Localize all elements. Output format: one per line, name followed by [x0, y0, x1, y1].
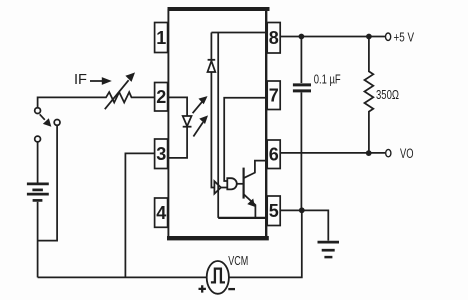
- svg-text:4: 4: [156, 203, 166, 223]
- svg-text:8: 8: [269, 28, 279, 48]
- svg-text:0.1 µF: 0.1 µF: [314, 72, 341, 87]
- svg-text:IF: IF: [74, 71, 87, 88]
- svg-text:2: 2: [156, 87, 166, 107]
- svg-text:VCM: VCM: [228, 253, 248, 268]
- svg-text:6: 6: [269, 145, 279, 165]
- svg-text:+5 V: +5 V: [394, 29, 415, 44]
- svg-text:7: 7: [269, 86, 279, 106]
- svg-text:5: 5: [269, 201, 279, 221]
- svg-text:350Ω: 350Ω: [376, 87, 399, 102]
- svg-text:VO: VO: [400, 146, 414, 161]
- svg-text:1: 1: [156, 28, 166, 48]
- svg-text:3: 3: [156, 144, 166, 164]
